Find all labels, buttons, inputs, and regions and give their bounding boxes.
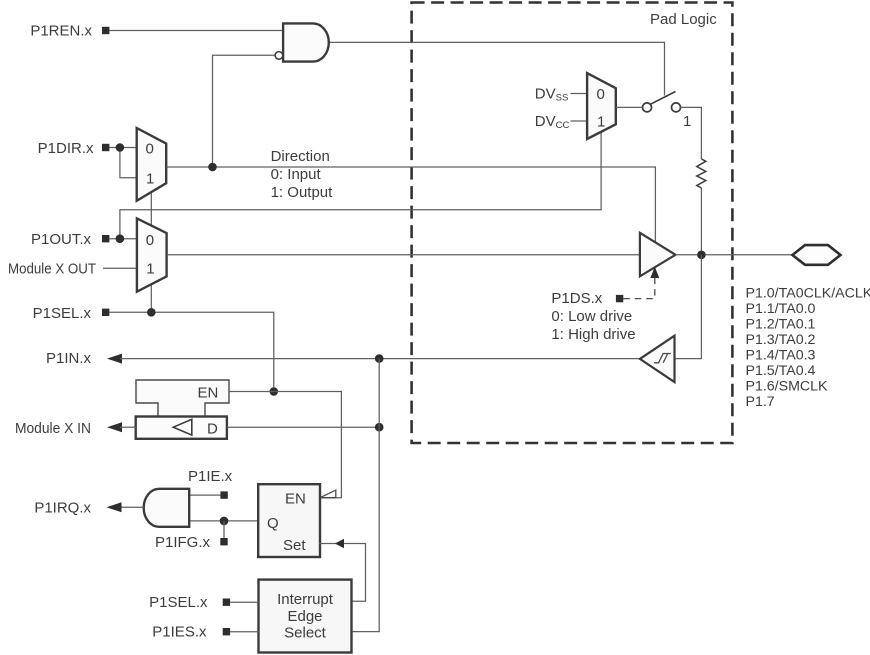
svg-text:Set: Set	[283, 537, 306, 554]
wire Set input from interrupt edge select	[319, 544, 366, 602]
hysteresis symbol in U5	[654, 354, 671, 363]
wire buffer U4 output to pad	[676, 254, 793, 256]
node P1SEL at EN line	[270, 387, 279, 396]
svg-text:P1SEL.x: P1SEL.x	[149, 594, 208, 611]
wire DVSS stub to mux M3 input 0	[571, 93, 588, 95]
input latch D box	[136, 417, 227, 439]
arrowhead Module X IN	[107, 422, 122, 432]
resistor R1 pull resistor	[697, 159, 706, 188]
wire P1IE to AND gate U2 top input	[189, 494, 220, 496]
wire M2 output to output buffer U4	[167, 254, 640, 256]
terminal square P1SEL.x	[102, 309, 109, 316]
wire switch to resistor R1	[680, 107, 701, 159]
wire U1 lower input from Direction node	[213, 55, 275, 167]
svg-text:EN: EN	[285, 491, 306, 508]
wire Module X OUT to mux M2 input 1	[103, 267, 137, 269]
switch contact circle right	[672, 103, 681, 112]
pad logic dashed box	[412, 3, 733, 444]
svg-text:P1REN.x: P1REN.x	[30, 23, 92, 40]
svg-text:P1IRQ.x: P1IRQ.x	[34, 500, 91, 517]
mux M3 pull-up pull-down select	[587, 73, 616, 139]
wire shared mux select vertical (P1SEL)	[150, 192, 152, 313]
svg-text:P1OUT.x: P1OUT.x	[31, 231, 92, 248]
svg-text:0: 0	[146, 141, 154, 158]
node P1IFG junction	[220, 517, 229, 526]
wire U2 output to P1IRQ.x	[120, 506, 144, 508]
node P1OUT branch	[116, 234, 125, 243]
inverted input bubble on U1	[275, 52, 283, 60]
svg-text:1: 1	[146, 171, 154, 188]
svg-text:1: 1	[146, 261, 154, 278]
wire P1DIR branch to mux M1 input 1	[120, 148, 137, 178]
mux M1 P1DIR direction mux	[137, 128, 167, 201]
arrowhead Set input	[335, 539, 344, 548]
wire resistor R1 to pad node	[700, 188, 702, 255]
AND gate U1 (P1REN enable)	[283, 23, 329, 61]
wire P1SEL.x to edge select box	[230, 601, 258, 603]
arrowhead P1DS into buffer U4	[650, 267, 659, 278]
switch contact circle left	[643, 103, 652, 112]
interrupt flag flip-flop U3	[258, 484, 320, 557]
mux M2 P1OUT output mux	[137, 218, 167, 291]
AND gate U2 interrupt	[144, 489, 190, 527]
svg-text:0: 0	[597, 86, 605, 103]
wire U1 output to switch control	[329, 42, 665, 95]
terminal square P1OUT.x	[102, 235, 109, 242]
svg-text:EN: EN	[198, 385, 219, 402]
output buffer U4	[640, 233, 676, 276]
svg-text:Pad Logic: Pad Logic	[650, 11, 717, 28]
svg-text:1: 1	[597, 114, 605, 131]
wire P1SEL.x line to EN junction	[109, 312, 273, 391]
P1DS.x terminal square	[616, 295, 623, 302]
svg-text:Module X OUT: Module X OUT	[8, 261, 96, 278]
wire DVCC stub to mux M3 input 1	[571, 120, 588, 122]
wire P1OUT.x to mux M2 input 0	[109, 238, 136, 240]
svg-text:D: D	[207, 421, 218, 438]
Schmitt trigger input buffer U5	[640, 336, 675, 382]
svg-text:Q: Q	[267, 515, 279, 532]
arrowhead P1IRQ.x	[107, 502, 122, 512]
wire pad node to Schmitt input	[675, 255, 702, 359]
wire P1IES.x to edge select box	[230, 631, 258, 633]
svg-text:0: 0	[146, 232, 154, 249]
terminal square P1IFG.x	[220, 538, 227, 545]
svg-text:P1IN.x: P1IN.x	[46, 350, 92, 367]
wire P1DIR.x to mux M1 input 0	[109, 147, 136, 149]
svg-text:P1IES.x: P1IES.x	[152, 624, 207, 641]
node pad junction	[697, 251, 706, 260]
P1DS.x dashed control wire	[623, 278, 655, 299]
wire Module X IN from D box	[120, 426, 136, 428]
wire Direction line from M1 output to output buffer enable	[166, 167, 655, 242]
terminal square P1REN.x	[102, 27, 109, 34]
node P1DIR branch	[116, 143, 125, 152]
node P1SEL at mux select	[147, 308, 156, 317]
node input branch on P1IN line	[375, 354, 384, 363]
terminal square P1SEL.x lower	[223, 599, 230, 606]
wire P1REN.x to AND gate U1 top input	[109, 30, 283, 32]
terminal square P1DIR.x	[102, 144, 109, 151]
pad hexagon P1 pin	[792, 245, 840, 265]
arrowhead P1IN.x	[107, 354, 122, 364]
wire P1OUT to pull mux M3 select	[120, 132, 601, 239]
wire node down to P1IFG terminal	[223, 521, 225, 538]
switch lever	[650, 92, 675, 105]
input latch enable EN outline	[136, 380, 229, 417]
svg-text:P1DIR.x: P1DIR.x	[38, 140, 94, 157]
svg-text:1: 1	[683, 113, 691, 130]
terminal square P1IES.x	[223, 628, 230, 635]
terminal square P1IE.x	[220, 491, 227, 498]
wire P1IN line from Schmitt buffer U5	[120, 358, 640, 360]
interrupt edge select box	[259, 580, 352, 653]
buffer triangle in D box	[173, 419, 192, 435]
svg-text:P1IE.x: P1IE.x	[188, 468, 233, 485]
svg-text:P1IFG.x: P1IFG.x	[155, 534, 211, 551]
edge-trigger marker on U3 enable	[320, 490, 336, 498]
wire latch EN to interrupt flip-flop enable	[229, 392, 341, 498]
svg-text:P1SEL.x: P1SEL.x	[33, 305, 92, 322]
node Direction junction	[208, 163, 217, 172]
wire input node down to interrupt edge select	[352, 359, 380, 632]
wire M3 output to switch	[616, 106, 643, 108]
node D branch	[375, 423, 384, 432]
wire D input from input node	[227, 426, 379, 428]
svg-text:Module X IN: Module X IN	[15, 420, 91, 437]
wire flip-flop Q to AND gate U2 lower input	[189, 520, 258, 522]
